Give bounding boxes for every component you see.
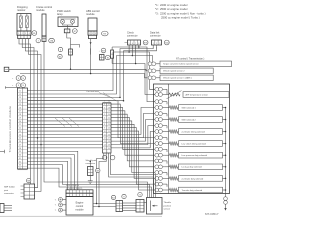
wire: return for Shift solenoid 1 (165, 102, 167, 105)
svg-text:Engine: Engine (76, 201, 84, 204)
svg-text:B78: B78 (144, 42, 147, 44)
svg-text:10: 10 (104, 131, 106, 133)
svg-text:22: 22 (108, 121, 110, 123)
svg-text:12: 12 (19, 94, 21, 96)
connector: left edge bottom stub (0, 204, 12, 213)
ground terminals: engine control module (55, 198, 66, 213)
svg-text:Shift solenoid 1: Shift solenoid 1 (182, 106, 197, 109)
connector label circle 28 left (36, 38, 40, 42)
svg-text:B134 B135 B136: B134 B135 B136 (66, 185, 79, 187)
svg-text:B40: B40 (165, 42, 168, 44)
svg-text:connector: connector (150, 35, 161, 38)
inline unit: diode (111, 47, 114, 64)
wire: long wire 2 (left to speed sensor 1) (20, 74, 147, 78)
svg-text:30: 30 (19, 155, 21, 157)
svg-text:25: 25 (19, 138, 21, 140)
connector: center harness connector (103, 101, 111, 153)
svg-text:7: 7 (135, 43, 136, 45)
svg-text:1: 1 (89, 33, 90, 35)
wire: cruise control down to bottom bundle (44, 41, 148, 197)
module: engine control module (66, 185, 93, 215)
svg-text:F49: F49 (103, 33, 106, 35)
svg-text:2500 cc engine model ( Turbo ): 2500 cc engine model ( Turbo ) (161, 16, 200, 20)
svg-text:24: 24 (19, 134, 21, 136)
solenoid coil and label: Low clutch timing solenoid (165, 141, 227, 147)
svg-text:21: 21 (19, 124, 21, 126)
svg-text:Shift solenoid 2: Shift solenoid 2 (182, 118, 197, 121)
svg-text:29: 29 (19, 151, 21, 153)
sensor: throttle position sensor (144, 198, 162, 215)
connector: check connector (125, 31, 141, 49)
svg-text:16: 16 (108, 101, 110, 103)
svg-text:20: 20 (19, 121, 21, 123)
wire: rail A TCM row1 to ATF row1 (27, 52, 155, 91)
wire: solenoid ground rail with connector and arrow (224, 108, 228, 211)
svg-text:B5: B5 (33, 33, 35, 35)
wire: data link pin1 to TCM row3 (27, 45, 153, 98)
wire: ABS drop with arrow (90, 39, 92, 49)
svg-text:35 34 33 32 31 30 29: 35 34 33 32 31 30 29 (66, 188, 82, 190)
wire: pointer to TCM top (6, 86, 18, 88)
terminal: left edge tick (0, 150, 5, 153)
svg-text:34: 34 (19, 168, 21, 170)
svg-text:2-4 brake duty solenoid: 2-4 brake duty solenoid (182, 177, 204, 180)
connector: throttle chain strip 1 (116, 201, 123, 212)
svg-text:3: 3 (25, 33, 26, 35)
connector label circle B6 lower (58, 54, 62, 58)
wire: check pin1 to rail A (128, 45, 130, 53)
solenoid coil and label: 2-4 brake timing solenoid (165, 129, 227, 135)
wire: return for Shift solenoid 2 (165, 114, 167, 117)
svg-text:resistor: resistor (17, 8, 26, 12)
note: shielded wire (87, 91, 118, 101)
sensor bar: Vehicle speed sensor 2 (148, 68, 213, 74)
svg-text:28: 28 (19, 148, 21, 150)
wire: return for Low clutch timing solenoid (165, 138, 167, 141)
wire: check pin4 to rail C (138, 45, 140, 48)
svg-text:32: 32 (19, 161, 21, 163)
svg-text:3: 3 (159, 43, 160, 45)
svg-text:position: position (164, 204, 172, 207)
connector: throttle chain strip 2 (136, 200, 144, 213)
svg-text:connector: connector (4, 192, 14, 195)
svg-text:B99: B99 (102, 50, 105, 52)
svg-text:13: 13 (104, 141, 106, 143)
connector label circle B7 (72, 29, 77, 34)
svg-text:Torque converter turbine speed: Torque converter turbine speed sensor (163, 63, 199, 66)
junction dot FWD on long wire 1 (70, 69, 72, 71)
svg-text:26: 26 (19, 141, 21, 143)
solenoid coil and label: Shift solenoid 1 (165, 105, 227, 111)
wire: return for 2-4 brake timing solenoid (165, 126, 167, 129)
svg-text:1: 1 (153, 43, 154, 45)
label: throttle position sensor (164, 201, 172, 210)
connector label circles below center connector (102, 155, 115, 160)
ground: shield joint connector (88, 176, 93, 184)
svg-text:Low clutch timing solenoid: Low clutch timing solenoid (182, 142, 207, 145)
resistor unit: dropping resistor (17, 5, 31, 39)
note: engine model legend (155, 3, 206, 20)
connector: data link connector (150, 31, 162, 49)
sensor bar: Vehicle speed sensor 1 ( ABS ) (148, 75, 213, 81)
svg-text:3: 3 (95, 33, 96, 35)
svg-text:B: B (60, 49, 61, 51)
wire: FWD branch right (71, 45, 80, 48)
terminal: left stub connector (4, 67, 9, 71)
thermistor: ATF temperature sensor element (165, 89, 182, 99)
svg-text:+: + (12, 78, 14, 80)
solenoid coil and label: Transfer duty solenoid (165, 187, 227, 193)
connector label circle B5 (32, 31, 37, 36)
svg-text:27: 27 (19, 144, 21, 146)
connector: joint connector lower left (3, 184, 35, 199)
connector label circle B40 (164, 40, 169, 45)
sensor bar: Torque converter turbine speed sensor (148, 61, 231, 67)
svg-text:33: 33 (19, 165, 21, 167)
wire: return for Line pressure duty solenoid (165, 149, 167, 152)
wire: check pin2 to rail B (132, 45, 134, 56)
svg-text:Vehicle speed sensor 2: Vehicle speed sensor 2 (163, 70, 185, 73)
connector label circle B99 (99, 48, 106, 53)
connector block: ABS inline (100, 55, 105, 61)
lamp unit: FWD pilot lamp (57, 9, 78, 33)
module: transmission control module block (18, 88, 28, 170)
svg-text:module: module (75, 209, 84, 212)
wire: rail C diode to transmission row (112, 47, 155, 102)
svg-text:T7: T7 (123, 196, 125, 198)
wire: FWD switch to long wire 1 (70, 55, 72, 69)
svg-text:7: 7 (38, 41, 39, 43)
svg-text:27: 27 (108, 138, 110, 140)
svg-text:Lock-up duty solenoid: Lock-up duty solenoid (182, 166, 203, 169)
wire bundle: TCM lower rows to engine control module (27, 151, 152, 197)
connector label circle B97 (96, 168, 100, 172)
svg-text:*1: *1 (55, 199, 57, 201)
svg-text:15: 15 (19, 104, 21, 106)
svg-text:B6: B6 (59, 56, 61, 58)
svg-text:8: 8 (138, 43, 139, 45)
svg-text:13: 13 (19, 97, 21, 99)
label bar: ATF temperature sensor (183, 92, 229, 98)
svg-text:MT-00517: MT-00517 (205, 212, 219, 216)
junction dots on resistor verticals (37, 137, 42, 145)
solenoid coil and label: Lock-up duty solenoid (165, 164, 227, 170)
svg-text:B6: B6 (107, 58, 109, 60)
svg-text:T3: T3 (139, 195, 141, 197)
solenoid coil and label: Shift solenoid 2 (165, 117, 227, 123)
svg-text:14: 14 (104, 144, 106, 146)
svg-text:30: 30 (108, 148, 110, 150)
connector label circle 28 right (49, 38, 55, 43)
border line bottom (0, 215, 162, 217)
wire: ABS inline block drop (90, 48, 92, 54)
svg-text:15: 15 (104, 148, 106, 150)
wire: check pin3 to rail D (135, 45, 137, 64)
svg-text:B97: B97 (96, 170, 99, 172)
wire group: dropping resistor to joint connector (19, 39, 41, 192)
svg-text:1: 1 (18, 33, 19, 35)
svg-text:*1: *1 (55, 205, 57, 207)
wire: ABS to long wire 2 (90, 48, 92, 73)
connector circle pair B6: ABS (105, 56, 110, 60)
connector label circle B upper (58, 47, 62, 51)
connector label circle T3 (138, 192, 142, 196)
svg-text:sensor: sensor (164, 208, 171, 211)
connector label circle T7 (122, 194, 126, 198)
svg-text:2: 2 (22, 33, 23, 35)
svg-text:17: 17 (108, 104, 110, 106)
svg-text:+: + (99, 50, 100, 52)
svg-text:18: 18 (108, 107, 110, 109)
wire: shield joint connector up (90, 161, 92, 167)
svg-text:*1: *1 (55, 210, 57, 212)
connector: shield joint connector (86, 159, 97, 176)
svg-text:lamp: lamp (57, 12, 63, 16)
svg-text:SBF holder: SBF holder (4, 186, 15, 189)
wire: FWD lamp to switch (67, 33, 71, 49)
svg-text:19: 19 (108, 111, 110, 113)
svg-text:+: + (12, 85, 14, 87)
wire bundle: TCM to transmission connector rows (27, 101, 154, 190)
svg-text:B12: B12 (112, 197, 115, 199)
wire: long wire 1 (left to speed sensor 2) (9, 69, 148, 71)
svg-text:Line pressure duty solenoid: Line pressure duty solenoid (182, 154, 208, 157)
box: transmission (154, 84, 230, 194)
svg-text:11: 11 (104, 134, 106, 136)
svg-text:31: 31 (19, 158, 21, 160)
svg-text:55: 55 (22, 85, 24, 87)
wire group: strip1 to strip2 (123, 203, 137, 211)
svg-text:23: 23 (108, 124, 110, 126)
svg-text:2: 2 (156, 43, 157, 45)
svg-text:2: 2 (92, 33, 93, 35)
wire: return for 2-4 brake duty solenoid (165, 173, 167, 176)
svg-text:Throttle: Throttle (164, 201, 172, 204)
svg-text:11: 11 (19, 91, 21, 93)
svg-text:AT control ( Transmission ): AT control ( Transmission ) (176, 58, 205, 61)
svg-text:21: 21 (108, 117, 110, 119)
svg-text:29: 29 (108, 144, 110, 146)
wire: rail B TCM row2 to turbine sensor (27, 56, 153, 94)
svg-text:17: 17 (19, 111, 21, 113)
svg-text:Vehicle speed sensor 1 ( ABS ): Vehicle speed sensor 1 ( ABS ) (163, 77, 192, 80)
svg-text:2-4 brake timing solenoid: 2-4 brake timing solenoid (182, 130, 206, 133)
module: cruise control (36, 5, 52, 41)
module: ABS control (86, 9, 100, 39)
svg-text:24: 24 (108, 128, 110, 130)
connector label circle B78 (143, 40, 148, 45)
svg-text:4: 4 (29, 33, 30, 35)
connector label circle B98 (27, 178, 31, 182)
svg-text:B7: B7 (74, 31, 76, 33)
svg-text:23: 23 (19, 131, 21, 133)
svg-text:6: 6 (132, 43, 133, 45)
svg-text:14: 14 (19, 101, 21, 103)
svg-text:5: 5 (129, 43, 130, 45)
connector label circle B12 (111, 195, 115, 199)
twisted pair marks (55, 118, 79, 127)
wire: return for Lock-up duty solenoid (165, 161, 167, 164)
svg-text:module: module (86, 12, 95, 16)
svg-text:B98: B98 (27, 181, 30, 183)
svg-text:26: 26 (108, 134, 110, 136)
wire: return for Transfer duty solenoid (165, 184, 167, 187)
wire group: center connector bottom exits (97, 153, 156, 207)
wire: data link pin2 to TCM row4 (27, 45, 157, 101)
svg-text:Transmission control module: Transmission control module (8, 106, 12, 152)
junction dot ABS on long wire 2 (90, 73, 92, 75)
svg-text:18: 18 (19, 114, 21, 116)
switch block: FWD switch (69, 49, 73, 55)
svg-text:12: 12 (104, 138, 106, 140)
svg-text:19: 19 (19, 117, 21, 119)
connector label circles B54 B55 (12, 76, 26, 88)
wire group: engine control module right exits (93, 203, 116, 208)
svg-text:Shield joint: Shield joint (86, 159, 97, 162)
svg-text:16: 16 (19, 107, 21, 109)
svg-text:20: 20 (108, 114, 110, 116)
svg-text:joint: joint (3, 189, 8, 192)
svg-text:28: 28 (108, 141, 110, 143)
svg-text:25: 25 (108, 131, 110, 133)
svg-text:54: 54 (22, 78, 24, 80)
svg-text:ATF temperature sensor: ATF temperature sensor (186, 94, 209, 97)
wire: rail D diode to ATF row 2 (112, 64, 155, 95)
svg-text:22: 22 (19, 128, 21, 130)
svg-text:B: B (18, 78, 19, 80)
svg-text:control: control (76, 205, 84, 208)
connector circle pairs: transmission inline connectors (154, 87, 165, 192)
svg-text:module: module (36, 8, 45, 12)
svg-text:connector: connector (127, 35, 138, 38)
connector label circle F49 (102, 31, 109, 36)
svg-text:Transfer duty solenoid: Transfer duty solenoid (182, 189, 203, 192)
solenoid coil and label: 2-4 brake duty solenoid (165, 176, 227, 182)
svg-text:For field wire: For field wire (87, 91, 100, 93)
svg-text:B: B (18, 85, 19, 87)
solenoid coil and label: Line pressure duty solenoid (165, 152, 227, 158)
